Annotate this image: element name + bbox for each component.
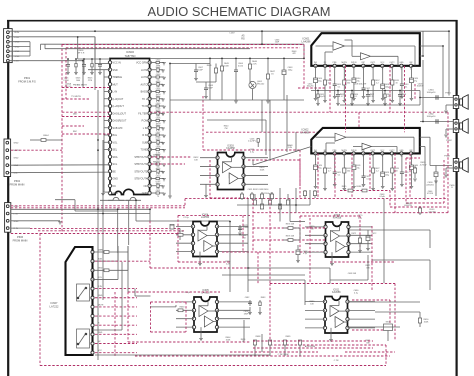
wire top mid bus: [170, 63, 210, 65]
dashed mute net to IC600: [61, 45, 63, 234]
svg-text:1000µ/16: 1000µ/16: [427, 116, 437, 118]
wire quadrant h192: [237, 204, 310, 206]
svg-text:IN2: IN2: [410, 150, 413, 152]
speaker connector PN08: [453, 159, 458, 172]
wire right of DIP4 long: [349, 229, 431, 231]
svg-text:STBYOUT2: STBYOUT2: [134, 163, 148, 166]
dual op-amp IC611 KA4558 body: [325, 297, 348, 334]
components right top of quadrant: [304, 190, 306, 198]
svg-text:100µ: 100µ: [385, 174, 389, 176]
svg-text:R609: R609: [156, 168, 161, 170]
wire left之 bus: [248, 279, 305, 281]
dashed box around IC604: [178, 214, 250, 216]
wire x118 drop: [117, 209, 119, 253]
svg-text:100µ: 100µ: [385, 86, 389, 88]
wire spk3 feed: [446, 167, 453, 169]
svg-text:NC: NC: [113, 185, 117, 188]
svg-text:1000P: 1000P: [243, 227, 249, 229]
dashed long y233: [40, 233, 178, 235]
switch S1 inside IC607: [77, 284, 90, 301]
svg-text:C2.2µ: C2.2µ: [183, 217, 189, 219]
dashed line mid page y112 right part: [150, 111, 448, 113]
dual op-amp IC603 KA4558 body: [218, 153, 244, 190]
svg-text:0.1: 0.1: [338, 86, 341, 88]
IC603 pins: [216, 156, 219, 159]
dashed vertical x270 mid: [269, 199, 271, 284]
svg-text:AUTC: AUTC: [141, 83, 148, 86]
svg-text:FM/AM MUTE: FM/AM MUTE: [73, 84, 87, 87]
svg-text:SDA: SDA: [14, 164, 19, 167]
svg-text:R602: R602: [156, 67, 161, 69]
dashed net y205: [11, 205, 185, 207]
svg-text:STBYOUT4: STBYOUT4: [134, 178, 148, 181]
op-amp A inside IC602: [335, 133, 346, 141]
svg-text:C604: C604: [156, 89, 161, 91]
svg-text:LCH: LCH: [15, 37, 20, 39]
svg-text:R607: R607: [156, 139, 161, 141]
IC606 ground: [331, 252, 333, 263]
dashed bottom band y352b: [230, 351, 318, 353]
dashed stub DAT: [151, 156, 192, 158]
op-amp A in IC611: [330, 306, 339, 317]
op-amp B in IC604: [204, 241, 213, 252]
capacitor C668: [204, 87, 208, 89]
svg-text:GND: GND: [14, 143, 19, 145]
svg-text:KA4558: KA4558: [226, 147, 235, 150]
svg-text:100P: 100P: [198, 69, 203, 71]
op-amp B in IC605: [204, 316, 213, 327]
svg-text:SDA: SDA: [113, 156, 118, 159]
dashed net from P606: [11, 233, 40, 235]
power amp IC601 LA4286 body: [311, 33, 420, 66]
wire amp2 out right: [420, 136, 430, 138]
IC611 left wires: [305, 301, 325, 303]
svg-text:100P: 100P: [275, 42, 280, 44]
svg-text:2.2: 2.2: [376, 170, 379, 172]
svg-text:RCH: RCH: [15, 32, 20, 34]
svg-text:C631 R632 C633 R634: C631 R632 C633 R634: [248, 189, 270, 191]
svg-text:R603: R603: [156, 81, 161, 83]
vertical x310: [309, 190, 311, 205]
ground right ladder: [168, 195, 172, 197]
wire SDA to IC600: [9, 164, 110, 166]
IC601 pins: [314, 64, 317, 67]
vertical bus x98: [97, 90, 99, 360]
svg-text:2.2: 2.2: [376, 82, 379, 84]
switch S2 inside IC607: [77, 329, 90, 348]
wire Q601 emitter: [252, 89, 254, 100]
wires IC607 to DIP3: [150, 306, 176, 308]
dashed around IC603: [209, 160, 211, 198]
svg-text:STBYOUT1: STBYOUT1: [134, 156, 148, 159]
wires right of DIP5: [348, 301, 421, 303]
dashed box IC606: [300, 215, 360, 217]
components between amps: [317, 91, 319, 95]
stub wires into IC600 left pins: [104, 76, 110, 78]
wire bus left of IC600: [103, 70, 105, 192]
svg-text:C608: C608: [156, 147, 161, 149]
svg-text:GND: GND: [113, 178, 119, 181]
IC605 internal wires: [199, 305, 208, 307]
svg-text:L-IN: L-IN: [113, 91, 118, 94]
IC603 internal wires: [223, 161, 232, 163]
svg-text:2.2K: 2.2K: [252, 63, 257, 65]
svg-text:ACN PRGM: ACN PRGM: [305, 345, 316, 348]
IC603 ground: [205, 184, 207, 195]
svg-text:R610: R610: [156, 183, 161, 185]
svg-text:0.1: 0.1: [355, 96, 358, 98]
svg-text:KA4558: KA4558: [332, 291, 341, 294]
ground IC600 bottom left: [101, 192, 105, 194]
IC604 internal wires: [198, 229, 207, 231]
svg-text:RG: RG: [241, 38, 245, 41]
svg-text:C606: C606: [156, 118, 161, 120]
svg-text:MUTE: MUTE: [341, 62, 347, 64]
svg-text:BASS: BASS: [141, 91, 148, 94]
IC604 right wires: [217, 225, 248, 227]
svg-text:DAO(R)OUT: DAO(R)OUT: [113, 120, 127, 123]
svg-text:/TPN: /TPN: [88, 80, 93, 82]
dashed net y230: [38, 230, 185, 232]
op-amp B inside IC601: [361, 53, 371, 60]
IC604 pins: [191, 225, 194, 228]
wire P606 lin: [11, 213, 150, 215]
dashed vertical x310 mid: [309, 218, 311, 284]
resistor R645: [220, 66, 223, 71]
wire pin2 from cluster: [88, 69, 110, 71]
svg-text:GND: GND: [399, 150, 404, 152]
dashed bottom band y348: [253, 347, 373, 349]
svg-text:C682: C682: [245, 297, 250, 299]
IC604 left wires: [176, 225, 193, 227]
wire amp1 out to speaker: [420, 45, 443, 47]
svg-text:100K: 100K: [224, 65, 229, 67]
svg-text:C683 10K: C683 10K: [348, 273, 357, 275]
svg-text:FROM MAIN: FROM MAIN: [10, 182, 25, 186]
op-amp A inside IC601: [333, 42, 345, 51]
components under IC601: [315, 66, 317, 78]
wire step left mid: [55, 199, 75, 201]
svg-text:IC600: IC600: [126, 50, 134, 54]
speaker connector PN01: [453, 96, 458, 109]
wire LCH bus: [9, 36, 95, 38]
op-amp control IC600 TA8776N body: [110, 59, 150, 195]
svg-text:SUB LPF: SUB LPF: [113, 127, 124, 130]
IC606 pins: [324, 225, 327, 228]
svg-text:SV01: SV01: [386, 321, 391, 323]
svg-text:4.7/1W: 4.7/1W: [420, 164, 427, 166]
vertical x122 right of IC607: [121, 262, 123, 330]
wire x305 vertical: [303, 44, 305, 58]
wire LCH pin7: [9, 60, 83, 62]
svg-text:100µ: 100µ: [318, 80, 322, 82]
svg-text:C.TM: C.TM: [334, 360, 339, 362]
dashed bottom y365: [40, 365, 386, 367]
svg-text:C605: C605: [156, 103, 161, 105]
wire spk2 lower pin: [446, 128, 453, 130]
resistor bottom right: [418, 318, 421, 323]
wire gnd chain P601: [9, 41, 30, 43]
svg-text:VCC: VCC: [380, 62, 385, 64]
dashed net DAO to IC600: [62, 116, 110, 118]
svg-text:C610: C610: [156, 176, 161, 178]
svg-text:PW IN: PW IN: [351, 150, 357, 152]
svg-text:GND: GND: [98, 295, 103, 297]
svg-text:4.7: 4.7: [328, 170, 331, 172]
svg-text:R672: R672: [351, 233, 356, 235]
dashed box bottom left: [128, 291, 220, 293]
svg-text:PN01: PN01: [445, 93, 451, 95]
dashed from P602 mute: [11, 149, 62, 151]
svg-text:R604: R604: [156, 96, 161, 98]
svg-text:MUT: MUT: [113, 83, 119, 86]
dashed vertical x40 bottom: [39, 234, 41, 366]
dashed h y228 mid: [253, 227, 325, 229]
dashed inner left edge: [65, 48, 67, 99]
svg-text:P602: P602: [14, 179, 21, 183]
svg-text:C602: C602: [156, 60, 161, 62]
svg-text:R676 10K: R676 10K: [286, 236, 295, 238]
svg-text:TREBLE: TREBLE: [113, 76, 123, 79]
svg-text:IN1: IN1: [314, 62, 317, 64]
svg-text:(L-R)OUT: (L-R)OUT: [113, 98, 124, 101]
connector P601: [4, 29, 13, 63]
svg-text:PW IN: PW IN: [351, 62, 357, 64]
svg-text:MAIN: MAIN: [98, 248, 103, 251]
svg-text:47µ: 47µ: [414, 80, 417, 82]
components right of DIP4: [358, 238, 361, 243]
svg-text:REC: REC: [73, 131, 78, 133]
IC605 ground: [200, 327, 202, 338]
dashed h y240 mid: [253, 239, 325, 241]
cap C663: [282, 70, 286, 75]
dashed bottom band y341: [253, 340, 373, 342]
wires bottom right region: [372, 259, 430, 261]
svg-text:MUTE: MUTE: [341, 150, 347, 152]
dashed bottom y355: [135, 355, 390, 357]
svg-text:VCC: VCC: [98, 350, 103, 352]
ground top mid: [234, 100, 238, 102]
svg-text:C611: C611: [156, 190, 160, 192]
IC605 pins: [192, 300, 195, 303]
svg-text:C608 D04./7W: C608 D04./7W: [354, 83, 367, 85]
svg-text:SND: SND: [113, 69, 118, 72]
op-amp A in IC603: [223, 162, 232, 173]
svg-text:47µ: 47µ: [357, 167, 360, 169]
svg-text:LA4286: LA4286: [302, 40, 312, 44]
op-amp B in IC606: [336, 241, 345, 252]
IC605 right wires: [217, 301, 250, 303]
resistor R647: [266, 74, 269, 79]
dashed right of IC604: [222, 251, 330, 253]
svg-text:LCH1: LCH1: [141, 76, 148, 79]
svg-text:470/16: 470/16: [427, 193, 433, 195]
dashed stub REC: [151, 163, 185, 165]
svg-text:PN02: PN02: [446, 140, 452, 142]
svg-text:F IN: F IN: [98, 277, 102, 279]
components left of IC605: [178, 309, 183, 312]
border frame top: [7, 20, 458, 22]
speaker connector PN02: [453, 120, 458, 133]
resistor ladder right of IC600: [150, 62, 156, 64]
dual op-amp IC604 LA4550 body: [193, 222, 217, 257]
IC605 left wires: [176, 301, 194, 303]
svg-text:(L+R)OUT: (L+R)OUT: [113, 105, 125, 108]
dashed vertical x258: [257, 252, 259, 284]
wire x128 drop: [128, 200, 130, 245]
dashed x115 bottom: [114, 292, 116, 356]
dashed right x372: [371, 226, 373, 290]
svg-text:P.ON: P.ON: [142, 120, 148, 123]
border frame right: [456, 20, 458, 376]
capacitor C667: [194, 69, 198, 71]
dashed net y198: [185, 198, 448, 200]
parts on dashed step: [348, 189, 353, 192]
svg-text:BAL: BAL: [113, 134, 118, 137]
IC600 right pins: [148, 61, 151, 64]
svg-text:FROM S.M.P.S: FROM S.M.P.S: [18, 79, 36, 83]
wire pin2 feed: [77, 37, 79, 59]
dashed bottom right inner: [345, 351, 395, 353]
svg-text:100/1W: 100/1W: [417, 86, 424, 88]
svg-text:VCC GRN: VCC GRN: [136, 62, 147, 65]
dashed stub x359: [358, 112, 360, 128]
part near C006: [257, 139, 259, 143]
svg-text:4000/7W: 4000/7W: [404, 205, 412, 207]
dashed net FM mute: [62, 87, 109, 89]
svg-text:NF X R: NF X R: [78, 52, 85, 54]
connector P602: [4, 139, 11, 177]
dashed box right mid: [405, 158, 407, 203]
vertical bus x103: [102, 140, 104, 300]
svg-text:KRC102: KRC102: [257, 83, 265, 85]
svg-text:4.7: 4.7: [341, 96, 344, 98]
wire P606 rin: [11, 227, 30, 229]
svg-text:1.26V: 1.26V: [229, 33, 235, 35]
wire long y209: [11, 208, 150, 210]
svg-text:VCC IN: VCC IN: [113, 62, 122, 65]
wires feeding amp2 from left: [253, 147, 311, 166]
svg-text:R.IN: R.IN: [288, 147, 292, 149]
op-amp B in IC611: [335, 317, 344, 328]
svg-text:GND: GND: [142, 192, 148, 195]
dashed vertical x243: [242, 215, 244, 252]
svg-text:FIL TER: FIL TER: [138, 112, 147, 115]
wire bus x136b: [136, 220, 150, 222]
dashed net x448: [447, 112, 449, 213]
op-amp B inside IC602: [362, 143, 372, 150]
wire from dashed mid to amp2: [289, 199, 291, 222]
wire RCH top bus: [9, 30, 449, 32]
vertical x262 top: [261, 31, 263, 44]
dashed box IC611: [270, 283, 395, 285]
input filter cluster caps: [67, 59, 69, 64]
parts mid right cluster: [239, 225, 241, 232]
svg-text:100µ/16: 100µ/16: [307, 86, 314, 88]
wire gnd bottom left IC600: [103, 191, 110, 193]
svg-text:R644: R644: [43, 135, 49, 137]
svg-text:0.1µA: 0.1µA: [380, 195, 386, 198]
transistor Q601: [249, 81, 256, 88]
IC604 ground: [199, 252, 201, 263]
svg-text:GND: GND: [113, 192, 119, 195]
dashed step net right mid: [340, 190, 390, 192]
wire bottom verticals: [229, 221, 231, 292]
svg-text:TA8776N: TA8776N: [125, 54, 136, 58]
svg-text:FROM MAIN: FROM MAIN: [13, 238, 28, 242]
svg-text:AUDIO SCHEMATIC DIAGRAM: AUDIO SCHEMATIC DIAGRAM: [148, 5, 331, 19]
hump jump wires below IC600: [108, 197, 124, 200]
wire bottom right h275: [222, 274, 305, 276]
dashed net y126 stub: [62, 125, 84, 127]
gray vertical x384: [383, 199, 385, 283]
svg-text:100K: 100K: [260, 169, 265, 171]
border frame left: [7, 20, 9, 376]
op-amp A in IC605: [199, 306, 208, 317]
dashed vertical x253 mid: [252, 199, 254, 252]
svg-text:TV MUTE: TV MUTE: [71, 96, 81, 98]
svg-text:R684 75: R684 75: [356, 186, 363, 188]
dashed net x185 step: [184, 199, 186, 206]
svg-text:0.1: 0.1: [405, 86, 408, 88]
svg-text:STBYOUT3: STBYOUT3: [134, 170, 148, 173]
svg-text:R606: R606: [156, 125, 161, 127]
IC601 internal wires: [316, 45, 334, 47]
dashed inner box IC611: [352, 299, 390, 301]
svg-text:180P: 180P: [244, 313, 249, 315]
svg-text:DAO(L)OUT: DAO(L)OUT: [113, 112, 127, 115]
svg-text:LCH2: LCH2: [141, 69, 148, 72]
wire SCL to IC600: [9, 171, 110, 174]
switch IC607 LA7222 body: [66, 247, 93, 355]
svg-text:IC607: IC607: [51, 301, 58, 305]
dual op-amp IC606 KA4558 body: [326, 222, 349, 257]
svg-text:LA4286: LA4286: [301, 131, 311, 135]
svg-text:GND: GND: [399, 62, 404, 64]
svg-text:0.1µ NFL: 0.1µ NFL: [248, 141, 256, 143]
junction dots: [94, 30, 96, 32]
svg-text:SUB: SUB: [142, 141, 147, 144]
wire bottom bus y355: [95, 354, 270, 356]
wire top mid y44: [41, 43, 305, 45]
IC606 right wires: [349, 226, 373, 228]
parts left of DIP5: [249, 300, 251, 306]
svg-text:REC: REC: [153, 161, 158, 163]
IC602 internal wires: [316, 136, 336, 138]
svg-text:VOL: VOL: [113, 141, 119, 144]
wire top mid h58: [150, 57, 304, 59]
svg-text:IN2: IN2: [410, 62, 413, 64]
wire to IC600 pin1: [95, 63, 110, 65]
gray L right of DIP4: [367, 255, 369, 280]
svg-text:DAO: DAO: [73, 113, 78, 116]
wire bottom right h268: [248, 267, 330, 269]
svg-text:0.1: 0.1: [338, 174, 341, 176]
dashed net y207: [11, 207, 185, 209]
svg-text:MUTE: MUTE: [98, 304, 104, 306]
dashed net y212: [253, 212, 448, 214]
svg-text:C.TM PRGM: C.TM PRGM: [278, 354, 289, 356]
svg-text:L IN: L IN: [143, 127, 148, 130]
dashed line mid page y112: [62, 111, 110, 113]
svg-text:GND: GND: [98, 268, 103, 270]
dashed bottom of IC604 box: [150, 267, 250, 269]
dashed box left of IC605: [151, 301, 187, 303]
svg-text:R683: R683: [261, 297, 266, 299]
components right mid: [413, 168, 416, 173]
svg-text:560: 560: [347, 170, 350, 172]
svg-text:OUT1: OUT1: [370, 150, 375, 152]
